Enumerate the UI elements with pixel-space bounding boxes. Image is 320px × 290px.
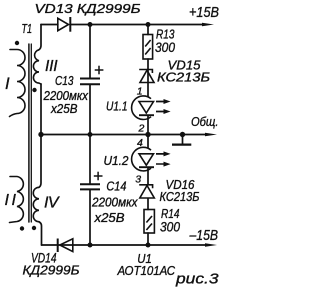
svg-text:КД2999Б: КД2999Б (23, 263, 81, 278)
svg-text:КС213Б: КС213Б (160, 190, 200, 204)
svg-text:300: 300 (160, 218, 180, 234)
svg-text:II: II (5, 192, 17, 209)
svg-text:АОТ101АС: АОТ101АС (117, 263, 176, 278)
svg-text:С14: С14 (106, 179, 126, 193)
svg-text:300: 300 (155, 39, 175, 55)
svg-text:I: I (5, 75, 10, 93)
svg-text:С13: С13 (55, 74, 74, 88)
svg-text:1: 1 (137, 85, 143, 97)
svg-text:2200мкх: 2200мкх (43, 89, 89, 103)
svg-text:+15В: +15В (189, 5, 219, 21)
svg-text:КС213Б: КС213Б (157, 70, 211, 85)
svg-text:3: 3 (135, 173, 141, 185)
svg-text:U1.2: U1.2 (104, 154, 129, 168)
svg-text:2: 2 (138, 122, 145, 134)
svg-text:–15В: –15В (189, 228, 219, 244)
svg-text:VD13 КД2999Б: VD13 КД2999Б (35, 1, 142, 16)
svg-text:Т1: Т1 (22, 22, 33, 36)
svg-text:Общ.: Общ. (191, 115, 219, 129)
svg-text:4: 4 (137, 137, 143, 149)
svg-text:2200мкх: 2200мкх (91, 196, 138, 210)
svg-text:х25В: х25В (93, 211, 124, 225)
svg-text:рис.3: рис.3 (175, 271, 219, 288)
svg-text:IV: IV (44, 195, 60, 212)
svg-text:III: III (45, 58, 58, 75)
svg-text:U1.1: U1.1 (106, 99, 128, 113)
svg-text:х25В: х25В (50, 102, 77, 116)
